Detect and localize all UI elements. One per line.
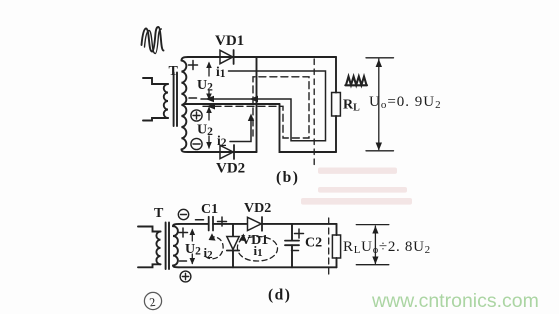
i2 loop arrowhead	[209, 233, 216, 240]
minus sign (d winding)	[180, 260, 187, 262]
circled minus (lower terminal)	[191, 138, 202, 149]
right rail (d)	[336, 224, 338, 235]
circled plus (center tap node)	[191, 110, 202, 121]
bottom wire (d)	[179, 266, 337, 268]
i2 current indicator hook	[230, 114, 254, 142]
right rail upper segment	[335, 57, 337, 93]
wire VD2 cathode up to top node	[256, 57, 258, 152]
right rail lower (d)	[336, 258, 338, 267]
U2 upper polarity arrow	[206, 62, 212, 101]
plus sign above C2	[295, 229, 304, 238]
circled plus below (d)	[180, 271, 191, 282]
output measurement arrow (b)	[366, 58, 394, 151]
svg-text:www.cntronics.com: www.cntronics.com	[371, 290, 539, 312]
transformer T core (d)	[166, 223, 169, 270]
capacitor C1	[209, 217, 213, 231]
top wire VD2 to right rail	[262, 223, 337, 225]
svg-text:RL: RL	[343, 98, 360, 114]
svg-text:VD1: VD1	[215, 33, 244, 49]
i1 current path line (solid with arrows)	[201, 71, 326, 141]
top wire (d) with break for C1	[179, 223, 208, 225]
svg-text:VD2: VD2	[216, 161, 245, 177]
svg-text:C2: C2	[305, 236, 322, 251]
top wire C1 to VD2	[213, 223, 247, 225]
minus sign upper winding	[189, 97, 197, 99]
svg-text:C1: C1	[201, 202, 218, 217]
circled minus (d secondary top)	[178, 209, 188, 219]
svg-text:i1: i1	[216, 64, 226, 80]
transformer T primary winding (d)	[138, 227, 161, 268]
U2 polarity arrow (d)	[190, 229, 196, 265]
transformer T secondary winding (b)	[182, 57, 189, 152]
svg-text:(d): (d)	[268, 287, 291, 304]
faint pink watermark rows	[301, 168, 412, 205]
svg-text:Uo=0. 9U2: Uo=0. 9U2	[369, 94, 442, 111]
dashed vertical near RL (d)	[328, 218, 330, 277]
minus sign below C2	[292, 250, 299, 252]
dashed i2 current loop (d)	[206, 237, 224, 259]
svg-text:i2: i2	[204, 245, 214, 261]
capacitor C2 branch	[285, 224, 299, 267]
right rail lower segment	[335, 116, 337, 152]
plus sign (d winding)	[179, 228, 188, 237]
resistor RL box	[332, 93, 341, 117]
transformer T primary winding (b)	[143, 78, 168, 121]
top wire (secondary top to load)	[188, 56, 336, 58]
diode VD1	[220, 50, 234, 64]
svg-text:T: T	[154, 206, 164, 221]
circled 2 annotation	[144, 292, 161, 309]
dashed i2 current loop	[203, 77, 309, 138]
long dashed vertical at load branch	[313, 59, 315, 168]
svg-text:VD2: VD2	[244, 201, 271, 216]
U2 lower polarity arrow	[206, 107, 212, 149]
i1 loop arrowhead	[239, 234, 246, 242]
output measurement arrow (d)	[356, 225, 389, 265]
diode VD2	[220, 145, 234, 159]
svg-text:(b): (b)	[276, 169, 299, 186]
ac source waveform scribble	[142, 27, 164, 54]
center tap wire from secondary	[184, 103, 280, 105]
bottom wire through VD2	[188, 151, 257, 153]
dashed i1 current loop (d)	[237, 237, 277, 262]
svg-text:RLUo÷2. 8U2: RLUo÷2. 8U2	[343, 239, 431, 256]
svg-text:2: 2	[149, 295, 157, 310]
resistor RL box (d)	[332, 235, 340, 258]
svg-text:U2: U2	[197, 78, 213, 94]
svg-text:U2: U2	[185, 242, 201, 258]
minus sign left of C1	[196, 219, 204, 221]
return wire center tap to load bottom	[280, 104, 337, 152]
svg-text:U2: U2	[197, 123, 213, 139]
ripple waveform symbol	[345, 77, 367, 86]
diode VD1 (d, vertical)	[227, 224, 239, 267]
diode VD2 (d)	[248, 217, 263, 231]
transformer T core (b)	[174, 73, 177, 127]
plus sign right of C1	[218, 217, 227, 226]
plus sign upper winding	[189, 61, 198, 70]
transformer T secondary winding (d)	[173, 224, 179, 267]
